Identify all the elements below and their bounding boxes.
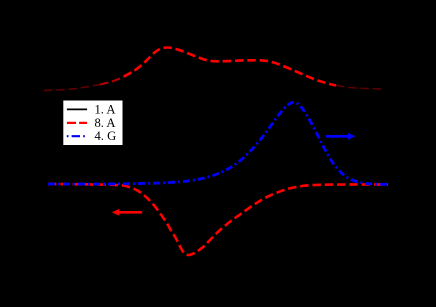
curve 8.A top red dashed, dim right tail xyxy=(336,86,385,90)
legend line 8.A red dashed xyxy=(67,122,87,124)
curve 4.G blue dash-dot with peak xyxy=(48,102,388,184)
curve 8.A bottom red dashed with dip xyxy=(48,184,388,255)
curve 8.A top red dashed, medium transition xyxy=(100,70,136,85)
legend box xyxy=(63,101,122,146)
red arrow pointing left xyxy=(112,209,142,216)
svg-text:1. A: 1. A xyxy=(95,102,116,116)
svg-text:8. A: 8. A xyxy=(95,116,116,130)
legend line 1.A black solid xyxy=(67,108,87,110)
curve 8.A top red dashed, dim left tail xyxy=(44,85,100,91)
blue arrow pointing right xyxy=(326,133,355,140)
curve 8.A top red dashed, bright middle xyxy=(124,47,336,85)
svg-text:4. G: 4. G xyxy=(95,129,117,143)
legend line 4.G blue dash-dot xyxy=(67,135,85,137)
